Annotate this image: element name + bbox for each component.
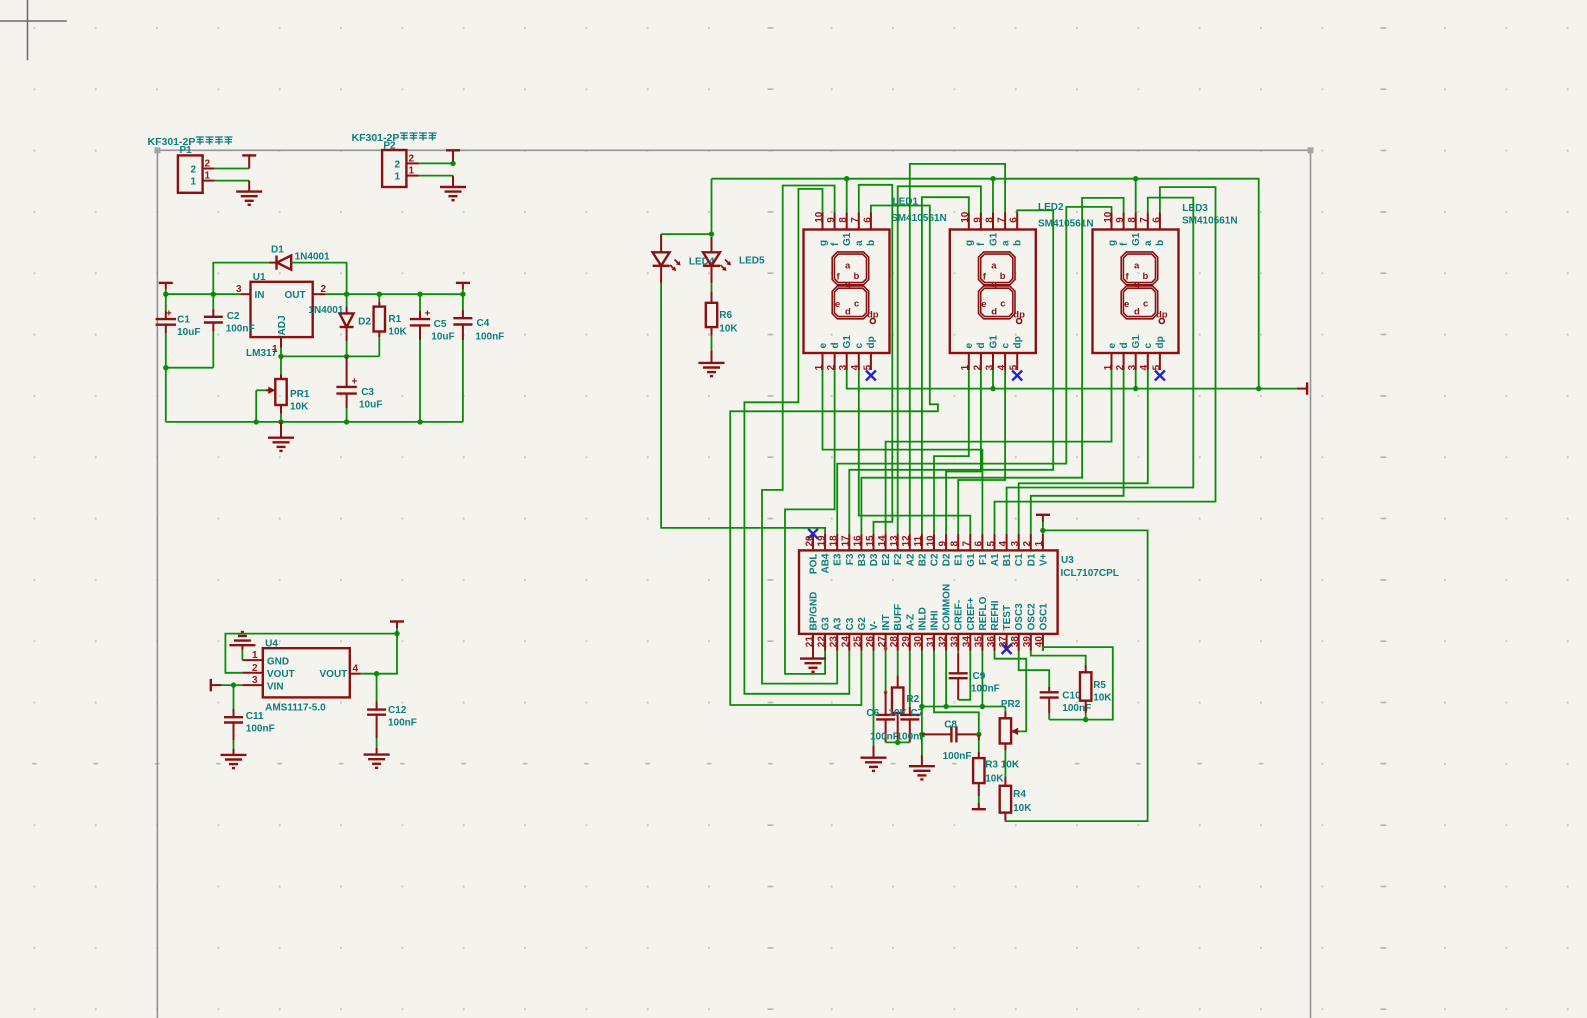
wire LED5 to G1 rail: [711, 179, 713, 234]
wire net LED2 pin2(d) to U3 pin9: [946, 370, 981, 534]
svg-text:16: 16: [853, 535, 864, 547]
wire net LED1 pin7(a) to U3 pin15: [859, 185, 893, 534]
capacitor C5 (electrolytic): [410, 319, 430, 325]
svg-text:F2: F2: [893, 553, 904, 565]
junction C12 branch: [374, 671, 379, 676]
resistor R2: [892, 688, 903, 714]
svg-text:G1: G1: [966, 553, 977, 567]
svg-text:5: 5: [986, 541, 997, 547]
svg-text:A-Z: A-Z: [905, 614, 916, 631]
svg-text:14: 14: [877, 535, 888, 547]
svg-text:U1: U1: [253, 272, 266, 283]
svg-text:V+: V+: [1038, 553, 1049, 566]
ground C12: [364, 755, 390, 768]
no-connect X U3 pin20: [808, 529, 818, 539]
junction IN rail at C1: [163, 292, 168, 297]
svg-text:C2: C2: [227, 311, 240, 322]
wire net LED3 pin2(d) to U3 pin2: [1031, 370, 1124, 534]
power port bar V+: [1036, 514, 1050, 516]
svg-text:10K: 10K: [889, 708, 908, 719]
power port bar +5V: [390, 621, 404, 623]
svg-text:C4: C4: [477, 318, 490, 329]
svg-text:R6: R6: [719, 310, 732, 321]
junction COMMON left: [919, 704, 924, 709]
svg-text:10: 10: [925, 535, 936, 547]
wire U3 pin27 INT to C6: [885, 651, 887, 692]
wire G1 bottom rail: [847, 370, 1297, 389]
svg-text:F3: F3: [845, 553, 856, 565]
junction V+: [1040, 528, 1045, 533]
U1 pin 2 stub: [313, 293, 325, 295]
origin crosshair: [0, 0, 67, 60]
capacitor C8 (horizontal): [922, 733, 952, 735]
svg-text:15: 15: [865, 535, 876, 547]
svg-text:100nF: 100nF: [1062, 703, 1091, 714]
svg-text:BUFF: BUFF: [893, 604, 904, 631]
wire C1-C2 link: [166, 367, 214, 369]
junction G1 rail LED3: [1133, 176, 1138, 181]
power port bar VIN (vertical bar): [210, 679, 212, 691]
svg-text:OUT: OUT: [285, 290, 306, 301]
svg-text:E1: E1: [954, 553, 965, 566]
svg-text:C3: C3: [845, 617, 856, 630]
wire net LED2 pin1(e) to U3 pin10: [934, 370, 969, 534]
svg-text:100nF: 100nF: [226, 324, 255, 335]
svg-text:B3: B3: [857, 553, 868, 566]
wire U4 VOUT right: [361, 628, 398, 674]
svg-text:2: 2: [191, 165, 197, 176]
resistor R5: [1085, 665, 1087, 672]
ground (inverted) U4 pin1: [229, 632, 255, 645]
junction ADJ at C3: [344, 354, 349, 359]
U3 bottom pin numbers: [804, 636, 1045, 648]
svg-text:29: 29: [901, 636, 912, 648]
svg-text:VOUT: VOUT: [267, 669, 295, 680]
svg-text:19: 19: [816, 535, 827, 547]
svg-text:BP/GND: BP/GND: [809, 592, 820, 631]
svg-text:VIN: VIN: [267, 681, 284, 692]
wire D1 left: [213, 263, 269, 295]
ground C11: [221, 755, 247, 768]
svg-text:26: 26: [865, 636, 876, 648]
wire U3 pin36 REFHI to PR2 wiper: [995, 651, 1027, 732]
junction P2 pin2: [450, 161, 455, 166]
junction C11 branch: [231, 682, 236, 687]
wire net LED3 pin6(b) to U3 pin5: [995, 187, 1216, 534]
svg-text:C10: C10: [1062, 691, 1081, 702]
svg-text:E3: E3: [833, 553, 844, 566]
wire P2 pin1 to ground: [419, 175, 454, 177]
junction G1 bottom right: [1256, 386, 1261, 391]
svg-text:11: 11: [913, 535, 924, 546]
svg-text:R3 10K: R3 10K: [985, 760, 1020, 771]
svg-text:10K: 10K: [290, 402, 309, 413]
svg-text:INLD: INLD: [917, 607, 928, 630]
wire D1 right: [291, 263, 346, 295]
ground U3 pin21 BP/GND: [812, 651, 814, 659]
wire net LED1 pin9(f) to U3 pin23: [762, 186, 837, 684]
no-connect X LED2 pin5: [1012, 371, 1022, 381]
no-connect X LED3 pin5: [1155, 371, 1165, 381]
U3 top pin stubs: [813, 534, 1043, 551]
svg-text:F1: F1: [978, 553, 989, 565]
junction COMMON pin32: [943, 704, 948, 709]
wire net LED3 pin10(g) to U3 pin18: [837, 207, 1111, 534]
svg-text:1: 1: [191, 177, 197, 188]
svg-text:1: 1: [1034, 541, 1045, 547]
wire R6 to ground: [711, 327, 713, 335]
svg-text:100nF: 100nF: [475, 332, 504, 343]
svg-text:4: 4: [353, 664, 359, 675]
U3 top pin names: [809, 553, 1050, 574]
svg-text:OSC2: OSC2: [1026, 603, 1037, 631]
wire U3 pin38 OSC3 to C10: [1019, 651, 1049, 687]
svg-text:COMMON: COMMON: [942, 584, 953, 631]
wire U3 pin33 CREF- to C9: [957, 651, 959, 654]
svg-text:2: 2: [205, 159, 211, 170]
svg-text:36: 36: [986, 636, 997, 648]
junction G1 rail LED1: [844, 176, 849, 181]
wire net LED4 to U3 pin19: [661, 284, 825, 534]
diode D1: [277, 256, 292, 270]
svg-text:10uF: 10uF: [177, 327, 200, 338]
wire P1 pin1 to ground: [215, 180, 250, 182]
svg-text:100nF: 100nF: [943, 751, 972, 762]
svg-text:OSC3: OSC3: [1014, 603, 1025, 631]
svg-text:G2: G2: [857, 617, 868, 631]
svg-text:B2: B2: [917, 553, 928, 566]
svg-text:25: 25: [853, 636, 864, 648]
connector P2 pin 1 stub: [406, 175, 418, 177]
diode D2 (vertical): [346, 294, 348, 306]
svg-text:C11: C11: [246, 711, 264, 722]
wire G1 drop LED2 pin8: [992, 179, 994, 213]
svg-text:LED2: LED2: [1038, 202, 1064, 213]
regulator U1 LM317 body: [251, 282, 313, 337]
wire net V+ to R4 bottom: [1005, 530, 1147, 821]
wire C9 to U3 pin34 CREF+: [958, 651, 970, 700]
svg-text:D1: D1: [271, 245, 284, 256]
svg-text:C9: C9: [973, 671, 986, 682]
wire net LED2 pin7(a) to U3 pin12: [910, 164, 1005, 534]
svg-text:TEST: TEST: [1002, 605, 1013, 631]
power port bar R3 bottom: [972, 808, 986, 810]
svg-text:24: 24: [841, 636, 852, 648]
ground INLD: [909, 766, 935, 779]
svg-text:100nF: 100nF: [971, 684, 1000, 695]
wire OUT rail: [325, 293, 463, 295]
sheet border: [157, 150, 1310, 1018]
resistor R1: [374, 307, 385, 332]
junction G1 rail LED2: [990, 176, 995, 181]
svg-text:C12: C12: [388, 705, 407, 716]
svg-text:+: +: [425, 309, 431, 320]
IC U3 ICL7107CPL body: [799, 550, 1058, 634]
svg-text:R2: R2: [906, 694, 919, 705]
svg-text:R5: R5: [1093, 680, 1106, 691]
wire bottom rail: [166, 421, 463, 423]
wire G1 drop LED3 pin8: [1135, 179, 1137, 213]
svg-text:CREF-: CREF-: [954, 600, 965, 631]
svg-text:C1: C1: [1014, 553, 1025, 566]
no-connect X LED1 pin5: [866, 371, 876, 381]
wire G1 top rail: [712, 179, 1259, 389]
bold grid marks column: [767, 28, 773, 1009]
svg-text:10uF: 10uF: [431, 332, 454, 343]
svg-text:C3: C3: [361, 387, 374, 398]
svg-text:AMS1117-5.0: AMS1117-5.0: [265, 703, 326, 714]
power port bar VCC-in left: [159, 282, 173, 284]
svg-text:A1: A1: [990, 553, 1001, 566]
junction bottom rail PR1: [278, 419, 283, 424]
svg-text:2: 2: [1022, 541, 1033, 547]
svg-text:A2: A2: [905, 553, 916, 566]
svg-text:1: 1: [409, 166, 415, 177]
svg-text:SM410561N: SM410561N: [891, 213, 947, 224]
ground R6: [699, 363, 725, 376]
svg-text:R4: R4: [1013, 789, 1026, 800]
svg-text:40: 40: [1034, 636, 1045, 648]
U4 pin 2 stub: [242, 672, 262, 674]
node pin27 wire ends: [884, 647, 888, 651]
U4 pin 3 stub: [242, 684, 262, 686]
potentiometer PR2: [1004, 707, 1006, 712]
svg-text:LED5: LED5: [739, 256, 765, 267]
svg-text:1: 1: [272, 344, 278, 355]
wire net LED1 pin2(d) to U3 pin22: [785, 370, 835, 674]
capacitor C4: [453, 318, 472, 324]
svg-text:100nF: 100nF: [870, 732, 899, 743]
svg-text:IN: IN: [255, 290, 265, 301]
wire U3 pin28 BUFF to R2: [897, 651, 899, 675]
wire U3 pin32 COMMON: [945, 651, 947, 707]
power port bar out right: [456, 282, 470, 284]
svg-text:1: 1: [205, 171, 211, 182]
wire G1 drop LED1 pin8: [846, 179, 848, 213]
wire U3 pin30 INLD to ground: [921, 651, 923, 755]
wire ADJ net: [280, 348, 282, 357]
U3 bottom pin stubs: [813, 634, 1043, 651]
svg-text:1N4001: 1N4001: [308, 305, 343, 316]
svg-text:39: 39: [1022, 636, 1033, 648]
junction IN rail at C2: [211, 292, 216, 297]
LED4 diode: [660, 234, 662, 252]
svg-text:C5: C5: [434, 319, 447, 330]
svg-text:D2: D2: [942, 553, 953, 566]
svg-text:C1: C1: [177, 315, 190, 326]
resistor R3: [978, 734, 980, 740]
junction OUT at R1: [377, 292, 382, 297]
svg-text:100nF: 100nF: [388, 718, 417, 729]
svg-text:C8: C8: [944, 720, 957, 731]
svg-text:VOUT: VOUT: [320, 669, 348, 680]
potentiometer PR1: [275, 379, 286, 405]
svg-text:R1: R1: [388, 314, 401, 325]
ground P1: [236, 192, 262, 205]
regulator U4 AMS1117-5.0 body: [263, 648, 350, 697]
U1 pin 3 stub: [240, 293, 250, 295]
wire U4 GND loop to inverted ground: [241, 650, 243, 661]
connector P2 body: [382, 150, 406, 187]
svg-text:PR2: PR2: [1001, 699, 1021, 710]
wire net LED2 pin9(f) to U3 pin13: [898, 186, 981, 533]
wire U3 pin29 A-Z to C7: [909, 651, 911, 707]
junction G1 bottom LED2: [990, 386, 995, 391]
junction OUT at D2: [344, 292, 349, 297]
capacitor C11: [233, 685, 235, 709]
svg-text:13: 13: [889, 535, 900, 547]
junction OUT at C4: [460, 292, 465, 297]
wire net LED1 pin6(b) to U3 pin25: [730, 206, 938, 706]
svg-text:21: 21: [804, 636, 815, 648]
svg-text:G3: G3: [821, 617, 832, 631]
U4 pin 1 stub: [242, 659, 262, 661]
svg-text:12: 12: [901, 535, 912, 547]
svg-text:22: 22: [816, 636, 827, 648]
svg-text:E2: E2: [881, 553, 892, 566]
junction COMMON pin35: [980, 704, 985, 709]
capacitor C1 (electrolytic): [156, 319, 176, 325]
svg-text:27: 27: [877, 636, 888, 648]
svg-text:PR1: PR1: [290, 389, 310, 400]
ground PR1: [280, 422, 282, 438]
junction R2 bottom: [895, 740, 900, 745]
svg-text:18: 18: [829, 535, 840, 547]
svg-text:10uF: 10uF: [359, 400, 382, 411]
wire U3 pin26 V- to ground: [873, 651, 875, 746]
svg-text:POL: POL: [809, 554, 820, 575]
wire net LED3 pin9(f) to U3 pin16: [861, 198, 1123, 534]
junction VOUT loop: [394, 631, 399, 636]
no-connect X U3 pin37: [1002, 644, 1012, 654]
power port bar P2: [446, 149, 460, 151]
wire LED5 cathode to R6: [711, 283, 713, 291]
svg-text:28: 28: [889, 636, 900, 648]
svg-text:AB4: AB4: [821, 553, 832, 573]
svg-text:B1: B1: [1002, 553, 1013, 566]
connector P1 pin 1 stub: [203, 180, 215, 182]
wire P2 pin2 to power: [419, 162, 454, 164]
wire net LED3 pin1(e) to U3 pin14: [886, 370, 1112, 534]
capacitor C7: [909, 707, 911, 715]
svg-text:3: 3: [252, 675, 258, 686]
svg-text:33: 33: [950, 636, 961, 648]
junction bottom rail C3: [344, 419, 349, 424]
wire net LED1 pin1(e) to U3 pin6: [823, 370, 983, 534]
svg-text:OSC1: OSC1: [1038, 603, 1049, 631]
svg-text:REFHI: REFHI: [990, 600, 1001, 630]
ground V-: [861, 758, 887, 771]
capacitor C3 (electrolytic): [346, 356, 348, 387]
capacitor C6: [885, 692, 887, 715]
svg-text:ICL7107CPL: ICL7107CPL: [1061, 568, 1119, 579]
wire U3 pin31 INHI to C8: [934, 651, 979, 735]
svg-text:32: 32: [937, 636, 948, 648]
svg-text:2: 2: [395, 159, 401, 170]
connector P1 body: [178, 155, 203, 192]
capacitor C2: [204, 317, 223, 323]
junction bottom rail C5: [417, 419, 422, 424]
svg-text:2: 2: [252, 663, 258, 674]
svg-text:SM410561N: SM410561N: [1182, 216, 1238, 227]
junction R5 bottom: [1083, 717, 1088, 722]
connector P2 title CJK 接线端子 (stroke mimic): [400, 133, 437, 141]
U3 top pin numbers: [804, 535, 1045, 547]
power port bar P1: [242, 154, 256, 156]
svg-text:34: 34: [962, 636, 973, 648]
wire net LED1 pin4(c) to U3 pin7: [859, 370, 971, 534]
svg-text:100nF: 100nF: [246, 724, 275, 735]
wire net LED2 pin6(b) to U3 pin17: [849, 210, 1053, 533]
junction C1 branch: [163, 365, 168, 370]
bold grid marks row: [32, 763, 1312, 765]
svg-text:U4: U4: [265, 639, 278, 650]
wire net LED2 pin4(c) to U3 pin8: [958, 370, 1005, 534]
svg-text:17: 17: [841, 535, 852, 547]
LED5 diode: [711, 237, 713, 252]
svg-text:CREF+: CREF+: [966, 597, 977, 630]
svg-text:INT: INT: [881, 614, 892, 630]
wire LED2 pin3 drop: [992, 370, 994, 389]
connector P2 pin 2 stub: [406, 162, 418, 164]
svg-text:10K: 10K: [1013, 803, 1032, 814]
svg-text:9: 9: [937, 541, 948, 547]
svg-text:10K: 10K: [388, 327, 407, 338]
svg-text:+: +: [166, 309, 172, 320]
svg-text:30: 30: [913, 636, 924, 648]
capacitor C12: [376, 674, 378, 702]
junction ADJ at PR1: [278, 354, 283, 359]
wire COMMON line: [922, 706, 1006, 708]
svg-text:GND: GND: [267, 656, 289, 667]
svg-text:+: +: [352, 377, 358, 388]
wire C10/R5 bottom to U3 pin40 OSC1: [1043, 647, 1113, 720]
svg-text:C6: C6: [866, 708, 879, 719]
wire C6-R2-C7 bottom link: [886, 741, 910, 743]
wire U3 pin39 OSC2 to R5: [1031, 651, 1086, 665]
svg-text:10K: 10K: [1093, 693, 1112, 704]
junction C8 left: [919, 732, 924, 737]
junction G1 bottom LED3: [1133, 386, 1138, 391]
capacitor C9: [957, 654, 959, 674]
resistor R6: [706, 303, 717, 327]
junction LED5 anode: [709, 231, 714, 236]
svg-text:3: 3: [1010, 541, 1021, 547]
svg-text:10K: 10K: [985, 774, 1004, 785]
capacitor C10: [1048, 687, 1050, 692]
svg-text:REFLO: REFLO: [978, 596, 989, 630]
wire net LED3 pin7(a) to U3 pin4: [1007, 198, 1194, 534]
resistor R4: [1000, 786, 1011, 813]
U4 pin 4 stub: [350, 673, 361, 675]
wire LED3 pin3 drop: [1135, 370, 1137, 389]
wire U4 VOUT feedback loop: [225, 634, 397, 673]
svg-text:1N4001: 1N4001: [295, 252, 330, 263]
wire IN rail: [166, 293, 241, 295]
power port bar G1 right (vertical bar): [1306, 382, 1308, 394]
svg-text:10K: 10K: [719, 324, 738, 335]
wire P1 pin2 to power: [215, 168, 250, 170]
svg-text:31: 31: [925, 636, 936, 648]
ground P2: [440, 187, 466, 200]
connector P1 title CJK 接线端子 (stroke mimic): [196, 137, 233, 145]
svg-text:C2: C2: [930, 553, 941, 566]
svg-text:D3: D3: [869, 553, 880, 566]
U3 bottom pin names: [809, 584, 1050, 631]
svg-text:35: 35: [974, 636, 985, 648]
svg-text:ADJ: ADJ: [277, 315, 288, 335]
svg-text:D1: D1: [1026, 553, 1037, 566]
